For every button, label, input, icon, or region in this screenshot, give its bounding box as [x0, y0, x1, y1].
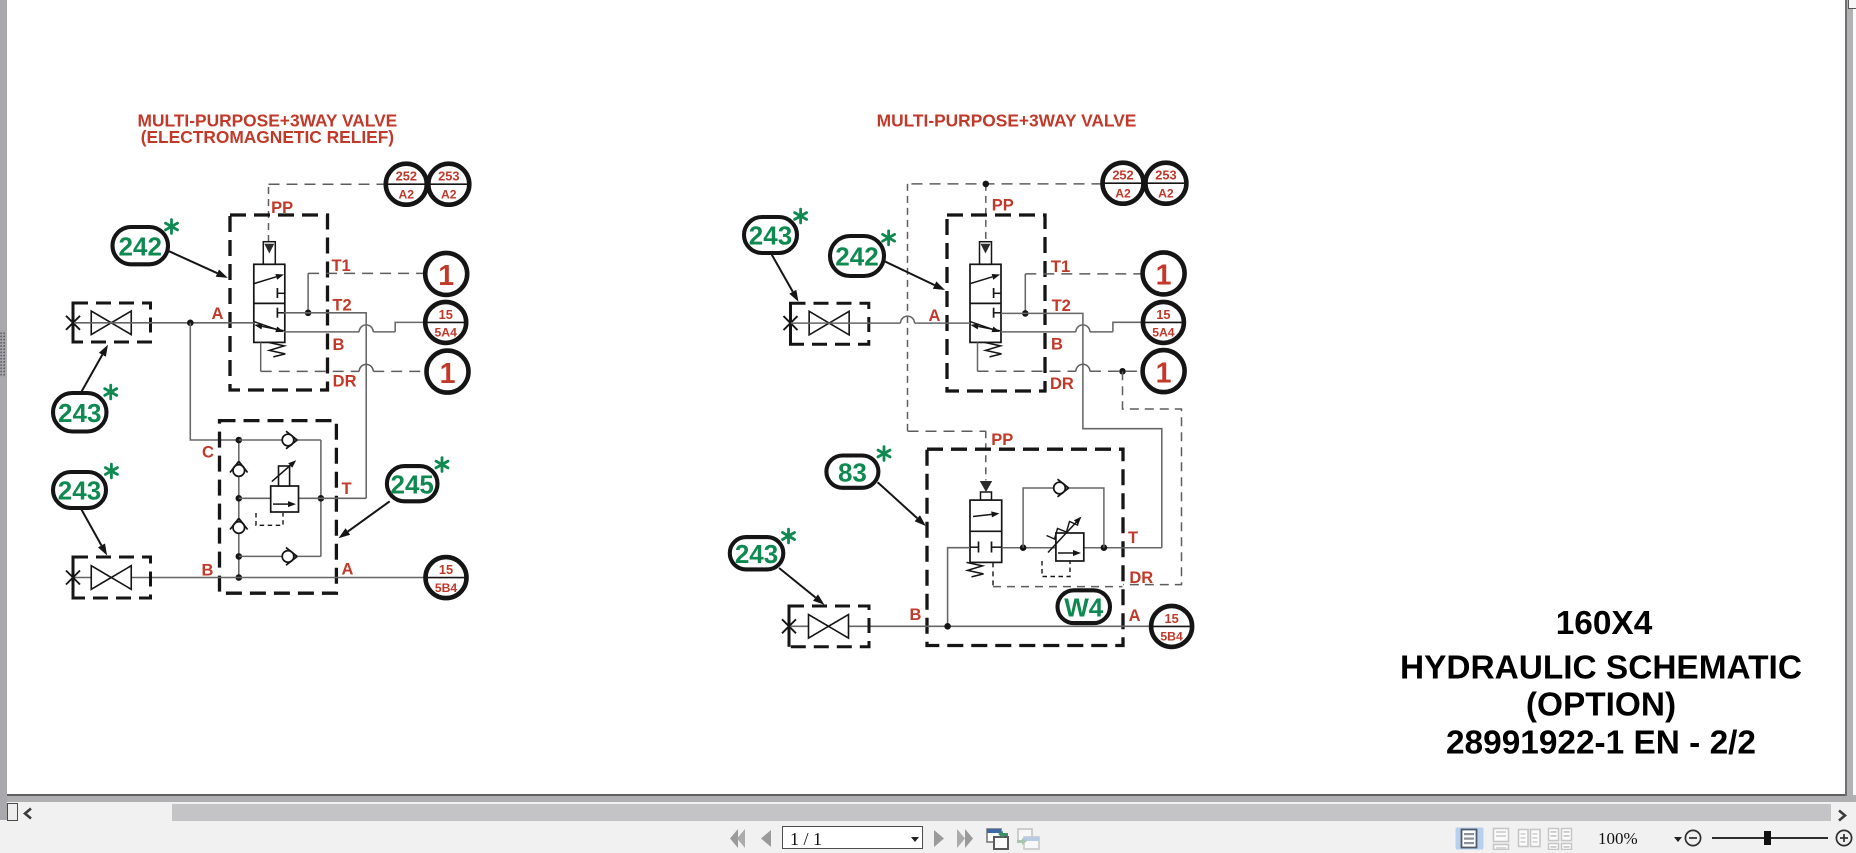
horizontal scrollbar left arrow — [22, 807, 34, 820]
wire T1 drop (left) — [307, 273, 309, 312]
svg-text:HYDRAULIC SCHEMATIC: HYDRAULIC SCHEMATIC — [1400, 649, 1802, 686]
svg-text:83: 83 — [838, 457, 867, 487]
wire A (right) — [791, 322, 970, 324]
port circle 15/5A4 (left) — [425, 302, 466, 343]
svg-text:DR: DR — [1050, 375, 1074, 393]
wire C (left) — [190, 323, 239, 440]
bypass check line (W4) — [1023, 488, 1104, 548]
single-page layout icon (active) — [1455, 827, 1484, 850]
svg-text:253: 253 — [438, 169, 459, 184]
node DR junction (right) — [1119, 368, 1126, 375]
svg-text:15: 15 — [1164, 611, 1178, 626]
node C junction — [236, 437, 243, 444]
page bottom border — [7, 794, 1846, 796]
svg-text:242: 242 — [835, 242, 878, 272]
viewer bottom area background — [0, 796, 1856, 853]
callout 243 lower-left — [53, 472, 106, 508]
toolbar prev-page button — [760, 829, 773, 848]
node T1/T2 junction (left) — [305, 310, 312, 317]
node bottom-path junction — [236, 553, 243, 560]
vertical scrollbar track — [1847, 0, 1856, 796]
svg-text:MULTI-PURPOSE+3WAY VALVE: MULTI-PURPOSE+3WAY VALVE — [877, 111, 1137, 131]
svg-text:15: 15 — [439, 562, 453, 577]
previous-view icon — [986, 827, 1010, 850]
node T junction (245) — [318, 495, 325, 502]
zoom-in button — [1835, 829, 1853, 847]
shutoff valve 243 lower-right — [789, 606, 869, 647]
toolbar next-page button — [933, 829, 946, 848]
zoom slider track — [1712, 837, 1828, 839]
leader arrow 243 upper-right — [771, 253, 793, 291]
node A junction (left) — [187, 320, 194, 327]
node T1/T2 junction (right) — [1022, 310, 1029, 317]
enclosure of valve 242 (right) — [947, 215, 1045, 391]
svg-text:B: B — [202, 561, 214, 579]
svg-text:243: 243 — [58, 398, 101, 428]
wire T out (left) — [321, 497, 366, 499]
svg-text:T2: T2 — [332, 296, 351, 314]
continuous layout icon — [1487, 827, 1516, 850]
svg-text:160X4: 160X4 — [1556, 605, 1653, 642]
leader arrow 243 lower-left — [81, 508, 102, 546]
node T-right junction (W4) — [1101, 544, 1108, 551]
node T-left junction (W4) — [1020, 544, 1027, 551]
wire A internal (W4 block) — [948, 548, 970, 626]
port circle 15/5A4 (right) — [1143, 302, 1184, 343]
shutoff valve 243 upper-left — [73, 303, 151, 342]
check valve rail lower (245) — [233, 522, 245, 534]
port circle 1 T1 (left) — [425, 253, 467, 295]
callout 245 (left) — [387, 466, 438, 501]
relief valve body (W4) — [1056, 533, 1084, 561]
horizontal scrollbar track — [172, 804, 1831, 821]
pilot supply line PP (right) — [908, 183, 1103, 185]
wire A (left) — [74, 322, 254, 324]
port circle 1 DR (left) — [427, 351, 469, 393]
svg-text:B: B — [333, 336, 345, 354]
svg-text:1: 1 — [1156, 357, 1172, 389]
asterisk of 242 (right) — [887, 231, 890, 245]
svg-text:T: T — [1128, 529, 1138, 547]
svg-text:1: 1 — [1156, 260, 1172, 292]
wire T1 dashed (right) — [1025, 273, 1142, 275]
bottom path (245) — [239, 555, 321, 557]
svg-text:245: 245 — [391, 469, 434, 499]
right page edge line — [1845, 0, 1846, 796]
asterisk of 243 lower-left — [110, 464, 113, 478]
left rail (manifold 245) — [238, 440, 240, 578]
svg-text:243: 243 — [749, 221, 792, 251]
svg-text:253: 253 — [1155, 168, 1176, 183]
asterisk of 245 (left) — [441, 458, 444, 472]
svg-text:242: 242 — [119, 231, 162, 261]
svg-text:PP: PP — [991, 431, 1013, 449]
svg-text:15: 15 — [439, 307, 453, 322]
svg-text:A: A — [342, 560, 354, 578]
check valve bottom path (245) — [282, 551, 294, 563]
callout W4 (right) — [1058, 590, 1111, 623]
svg-text:B: B — [910, 606, 922, 624]
solenoid valve 242 (left) — [254, 264, 285, 342]
svg-text:15: 15 — [1156, 307, 1170, 322]
leader arrow 243 upper-left — [81, 355, 102, 393]
wire B lower (left) — [74, 577, 426, 579]
svg-text:PP: PP — [271, 199, 293, 217]
zoom dropdown caret — [1673, 836, 1683, 843]
toolbar last-page button — [956, 828, 976, 849]
svg-text:5A4: 5A4 — [435, 326, 458, 340]
svg-text:A: A — [1129, 607, 1141, 625]
valve drain dashes (W4 block) — [992, 562, 994, 586]
svg-text:T1: T1 — [331, 257, 350, 275]
svg-text:W4: W4 — [1064, 592, 1104, 622]
solenoid pilot valve (W4 block) — [980, 481, 992, 492]
check valve rail upper (245) — [233, 465, 245, 477]
leader arrow 243 lower-right — [779, 568, 815, 598]
svg-text:A: A — [929, 307, 941, 325]
svg-text:243: 243 — [58, 476, 101, 506]
page box dropdown caret — [910, 836, 920, 843]
wire DR dashed (right) — [978, 370, 1143, 372]
callout 243 upper-left — [53, 393, 107, 432]
wire T2 to relief T (left) — [284, 313, 366, 499]
two-page layout icon — [1517, 827, 1542, 850]
callout 242 (left) — [113, 227, 169, 264]
svg-text:T: T — [341, 480, 351, 498]
svg-text:A2: A2 — [441, 187, 457, 201]
check valve top path (245) — [282, 434, 294, 446]
callout 243 upper-right — [744, 217, 797, 253]
svg-text:T2: T2 — [1052, 297, 1071, 315]
svg-text:252: 252 — [396, 169, 417, 184]
svg-text:1: 1 — [440, 358, 456, 390]
two-page continuous layout icon — [1547, 827, 1574, 850]
wire DR stub (right) — [977, 342, 979, 371]
check valve bypass (W4) — [1054, 482, 1066, 494]
asterisk of 243 upper-right — [799, 209, 802, 223]
shutoff valve 243 lower-left — [73, 557, 151, 598]
node PP junction (right) — [983, 181, 990, 188]
svg-text:5A4: 5A4 — [1152, 326, 1175, 340]
asterisk of 242 (left) — [170, 220, 173, 234]
svg-text:C: C — [202, 443, 214, 461]
zoom-out button — [1684, 829, 1702, 847]
toolbar first-page button — [729, 828, 747, 849]
wire T1 dashed (left) — [308, 272, 425, 274]
solenoid valve 242 (right) — [970, 264, 1001, 342]
svg-text:28991922-1 EN - 2/2: 28991922-1 EN - 2/2 — [1446, 724, 1756, 761]
leader arrow 242 (left) — [167, 250, 218, 273]
relief pilot dashes (245) — [256, 513, 283, 525]
svg-text:DR: DR — [1129, 569, 1153, 587]
svg-text:252: 252 — [1112, 168, 1133, 183]
right rail (manifold 245) — [320, 440, 322, 556]
connector circle 253/A2 (left) — [428, 164, 469, 205]
svg-text:5B4: 5B4 — [435, 581, 458, 595]
svg-text:DR: DR — [333, 373, 357, 391]
left strip grip dots — [0, 332, 6, 377]
page number text 1 / 1 — [790, 829, 822, 850]
callout 83 (right) — [826, 456, 878, 488]
wire DR riser (right) — [1123, 371, 1182, 584]
horizontal scrollbar corner button — [7, 803, 18, 822]
asterisk of 243 lower-right — [787, 529, 790, 543]
svg-text:B: B — [1051, 336, 1063, 354]
port circle 15/5B4 (left) — [426, 557, 467, 598]
leader arrow 242 (right) — [884, 261, 935, 285]
svg-text:T1: T1 — [1051, 258, 1070, 276]
wire B (left) — [284, 331, 395, 333]
port circle 1 DR (right) — [1143, 350, 1185, 392]
enclosure manifold W4 (right) — [927, 449, 1123, 645]
wire B lower (right) — [791, 625, 1151, 627]
connector circle 252/A2 (left) — [386, 164, 427, 205]
svg-text:A2: A2 — [1158, 186, 1174, 200]
svg-text:5B4: 5B4 — [1160, 630, 1183, 644]
svg-text:243: 243 — [735, 539, 778, 569]
svg-text:(OPTION): (OPTION) — [1526, 687, 1676, 724]
relief valve body (245) — [271, 486, 299, 512]
svg-text:PP: PP — [992, 197, 1014, 215]
enclosure of valve 242 (left) — [230, 215, 328, 390]
vertical scrollbar top button — [1848, 0, 1856, 9]
port circle 1 T1 (right) — [1143, 252, 1185, 294]
relief valve feed lines (245) — [239, 497, 271, 499]
zoom slider handle — [1764, 831, 1772, 845]
left window edge strip — [0, 0, 7, 820]
wire B (right) — [1001, 331, 1113, 333]
wire T2 to relief T (right) — [1001, 313, 1162, 547]
horizontal scrollbar right arrow — [1836, 809, 1848, 822]
vertical scrollbar thumb strip — [1853, 9, 1856, 795]
connector circle 253/A2 (right) — [1145, 163, 1186, 204]
enclosure manifold 245 (left) — [220, 421, 337, 594]
leader arrow 245 (left) — [348, 501, 390, 531]
svg-text:1: 1 — [438, 260, 454, 292]
asterisk of 83 (right) — [883, 447, 886, 461]
shutoff valve 243 upper-right — [791, 303, 869, 344]
callout 243 lower-right — [730, 537, 784, 569]
callout 242 (right) — [830, 236, 884, 276]
wire T1 drop (right) — [1024, 274, 1026, 314]
svg-text:A: A — [212, 305, 224, 323]
leader arrow 83 (right) — [878, 482, 918, 518]
wire DR dashed (left) — [261, 370, 427, 372]
connector circle 252/A2 (right) — [1103, 163, 1144, 204]
svg-text:A2: A2 — [1115, 186, 1131, 200]
node B junction (left) — [236, 574, 243, 581]
node relief-left junction — [236, 495, 243, 502]
node B junction (right) — [944, 623, 951, 630]
relief pilot dashes (W4) — [1042, 561, 1070, 577]
wire DR stub (left) — [260, 342, 262, 371]
relief adjust spring+arrow (W4) — [1047, 519, 1080, 540]
port circle 15/5B4 (right) — [1151, 606, 1192, 647]
svg-text:A2: A2 — [399, 187, 415, 201]
top path C to T (245) — [239, 439, 321, 441]
svg-text:(ELECTROMAGNETIC RELIEF): (ELECTROMAGNETIC RELIEF) — [141, 127, 394, 147]
wire T internal (W4 block) — [1002, 547, 1056, 549]
gray band below page — [0, 796, 1856, 803]
zoom percent text — [1598, 829, 1638, 849]
asterisk of 243 upper-left — [109, 385, 112, 399]
next-view icon (disabled) — [1016, 827, 1040, 850]
pilot supply line PP (left) — [268, 184, 270, 242]
toolbar page-number box — [782, 826, 923, 849]
